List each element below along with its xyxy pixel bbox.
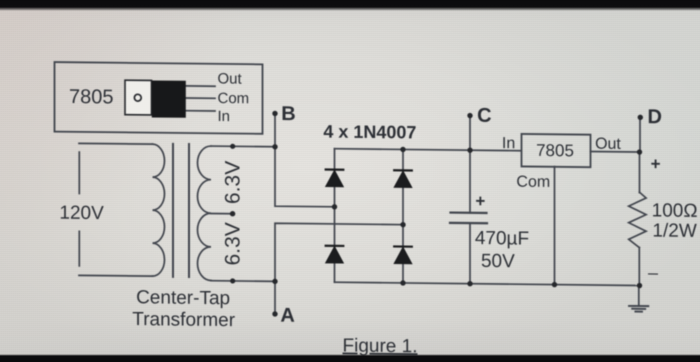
node D terminal dot (638, 115, 643, 120)
junction and terminal dots (230, 110, 643, 320)
ground bar 1 (629, 305, 648, 307)
regulator U1 7805 box (522, 134, 591, 167)
7805 legend box (55, 62, 263, 134)
junction D on top rail (637, 149, 642, 154)
transformer T1 primary bottom wire (79, 274, 153, 277)
svg-text:50V: 50V (481, 251, 515, 272)
node A terminal dot (272, 311, 277, 316)
transformer T1 primary top wire (79, 142, 153, 145)
svg-text:A: A (280, 305, 294, 327)
wire secondary bottom to node A line (211, 280, 275, 283)
TO-220 tab hole (134, 94, 141, 101)
svg-text:Com: Com (516, 174, 550, 191)
svg-text:–: – (648, 263, 658, 283)
svg-text:Center-Tap: Center-Tap (136, 287, 230, 309)
ground bar 3 (635, 311, 642, 313)
svg-text:C: C (477, 105, 491, 127)
transformer T1 primary left terminal upper (78, 152, 80, 194)
wire bridge right branch vertical (402, 149, 404, 283)
wire A terminal drop (274, 281, 276, 314)
svg-text:100Ω: 100Ω (652, 200, 698, 221)
svg-text:B: B (281, 103, 295, 125)
resistor R1 zigzag (629, 192, 646, 247)
svg-text:Com: Com (218, 90, 250, 107)
TO-220 package body (black) (152, 80, 186, 117)
wire resistor bottom lead (638, 248, 640, 286)
wire top rail (bridge output to regulator In) (335, 149, 522, 151)
center tap dot (230, 211, 235, 216)
transformer T1 primary winding (153, 144, 165, 276)
transformer T1 primary left terminal lower (78, 231, 80, 266)
wire center tap stub (211, 212, 233, 214)
wire node C vertical (469, 116, 471, 151)
svg-text:+: + (475, 192, 485, 211)
bottom black bar (0, 354, 700, 362)
wire capacitor top lead (469, 150, 471, 213)
svg-text:Transformer: Transformer (132, 309, 235, 331)
junction resistor bottom on rail (637, 283, 642, 288)
junction C on top rail (467, 147, 472, 152)
wire bridge bottom rail to ground run (335, 282, 640, 285)
transformer T1 secondary winding (198, 146, 212, 281)
node B terminal dot (272, 111, 277, 116)
diode D1 (bridge top-left) (326, 170, 412, 264)
wire lead In of TO-220 (186, 110, 216, 112)
svg-text:In: In (502, 135, 515, 152)
wire secondary top to node B line (211, 145, 275, 148)
junction secondary-bottom / A line (272, 279, 277, 284)
diode D2 (bridge bottom-left) (326, 245, 344, 247)
secondary top terminal dot (230, 144, 235, 149)
wire bridge left branch vertical (334, 149, 336, 283)
junction bridge left mid (332, 204, 337, 209)
svg-text:7805: 7805 (536, 141, 574, 160)
secondary bottom terminal dot (230, 278, 235, 283)
junction cap bottom on rail (467, 281, 472, 286)
capacitor C1 top plate (451, 211, 487, 214)
svg-text:470µF: 470µF (475, 228, 529, 250)
capacitor C1 bottom plate (450, 222, 487, 225)
wire capacitor bottom lead (469, 223, 471, 284)
svg-text:4 x 1N4007: 4 x 1N4007 (323, 121, 416, 142)
svg-text:1/2W: 1/2W (652, 220, 696, 241)
wire resistor top lead (639, 152, 641, 193)
svg-text:6.3V: 6.3V (222, 222, 245, 265)
junction bridge right bottom (400, 280, 405, 285)
wire node B vertical down to bridge left input (275, 113, 335, 206)
diode D4 (bridge bottom-right) (394, 245, 412, 247)
node C terminal dot (467, 113, 472, 118)
junction secondary-top / B line (272, 144, 277, 149)
svg-text:120V: 120V (59, 203, 104, 224)
wire node D vertical (639, 117, 641, 152)
svg-text:D: D (648, 106, 662, 128)
wire regulator Com pin (554, 167, 556, 285)
junction bridge right top (400, 147, 405, 152)
ground bar 2 (632, 308, 645, 310)
TO-220 package tab (white) (125, 80, 152, 115)
wire bridge right input to A line (275, 223, 403, 282)
wire regulator Out to node D junction (591, 150, 640, 153)
svg-text:6.3V: 6.3V (222, 161, 245, 204)
top black bar (0, 0, 700, 11)
ground stem (638, 286, 640, 307)
wire lead Out of TO-220 (186, 85, 216, 87)
junction bridge right mid (400, 222, 405, 227)
wire lead Com of TO-220 (186, 97, 216, 99)
svg-text:7805: 7805 (69, 86, 113, 108)
diode D3 (bridge top-right) (394, 169, 412, 171)
junction Com pin on rail (552, 282, 557, 287)
svg-text:In: In (218, 108, 231, 125)
svg-text:+: + (651, 154, 661, 173)
svg-text:Out: Out (595, 136, 621, 153)
svg-text:Out: Out (218, 70, 243, 87)
transformer T1 core (172, 144, 174, 277)
